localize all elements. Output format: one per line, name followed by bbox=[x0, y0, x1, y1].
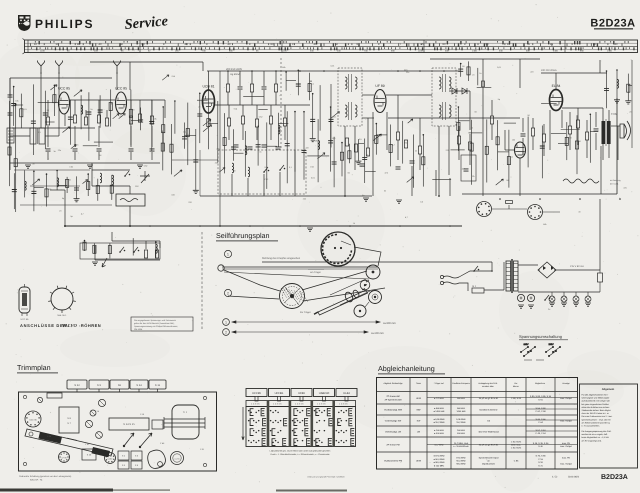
svg-text:400 kHz: 400 kHz bbox=[457, 432, 465, 435]
power transformer top view bbox=[172, 405, 199, 439]
coil fill bbox=[318, 141, 320, 150]
svg-text:460 kHz: 460 kHz bbox=[457, 397, 465, 400]
wire resistor drops left bbox=[47, 100, 49, 117]
resistor fill bbox=[20, 109, 23, 117]
svg-text:ca 600 mm: ca 600 mm bbox=[371, 332, 384, 335]
wire fill vertical bbox=[162, 107, 164, 151]
wire fill link bbox=[217, 126, 219, 128]
svg-text:Gedruckt und geprüft Fernempf: Gedruckt und geprüft Fernempf. schriftli… bbox=[307, 476, 344, 479]
junction fill bbox=[341, 142, 343, 144]
wire fill link bbox=[234, 152, 244, 154]
ground G4 bbox=[92, 262, 98, 265]
svg-text:±= 15 kHz/Rauh: ±= 15 kHz/Rauh bbox=[453, 445, 469, 448]
ground G5 bbox=[307, 228, 313, 231]
tube label boxes row bbox=[246, 389, 267, 397]
resistor R17 bbox=[269, 116, 272, 124]
wire fill vertical bbox=[69, 100, 71, 145]
wire fill vertical bbox=[390, 125, 392, 167]
capacitor C9 bbox=[262, 87, 267, 89]
svg-text:1k: 1k bbox=[366, 154, 368, 157]
svg-text:UCC85: UCC85 bbox=[252, 392, 261, 395]
resistor fill bbox=[108, 246, 111, 254]
wire fill vertical bbox=[76, 176, 78, 198]
wire left lower links bbox=[14, 169, 90, 171]
speaker cutout blob bbox=[148, 450, 166, 468]
resistor R24 bbox=[418, 146, 421, 154]
wire output tube verticals bbox=[555, 73, 557, 90]
switch S4 bbox=[264, 167, 268, 172]
box mains filter bbox=[116, 194, 145, 206]
svg-text:● 100 MHz: ● 100 MHz bbox=[434, 464, 444, 467]
wire fill vertical bbox=[330, 84, 332, 148]
capacitor C13 bbox=[276, 147, 281, 149]
wire fill vertical bbox=[162, 131, 164, 171]
svg-text:UCC 85: UCC 85 bbox=[58, 87, 70, 91]
wire fill vertical bbox=[233, 129, 235, 161]
wire fill vertical bbox=[477, 68, 479, 85]
svg-text:2n: 2n bbox=[457, 143, 459, 146]
wire fill link bbox=[45, 121, 54, 123]
wire fill vertical bbox=[110, 89, 112, 126]
IF transformer IFT1 bbox=[338, 68, 362, 126]
svg-text:5,95 MHz: 5,95 MHz bbox=[456, 418, 465, 421]
right pulley P1 bbox=[366, 265, 380, 279]
wire fill link bbox=[267, 145, 277, 147]
wire fill vertical bbox=[312, 94, 314, 139]
cord diagonals bbox=[224, 270, 280, 291]
resistor R27 bbox=[482, 81, 485, 87]
capacitor fill bbox=[296, 84, 301, 86]
wire bottom bus left bbox=[65, 225, 220, 227]
svg-text:S 25: S 25 bbox=[87, 454, 92, 457]
capacitor fill bbox=[86, 112, 91, 114]
resistor fill bbox=[308, 84, 311, 92]
svg-text:bei ganz eingezohrtem Drehk: bei ganz eingezohrtem Drehko bbox=[582, 403, 610, 406]
resistor fill bbox=[457, 122, 460, 130]
wire fill vertical bbox=[155, 242, 157, 258]
tube V4 UF89 pentode bbox=[374, 90, 386, 113]
wire fill vertical bbox=[217, 101, 219, 163]
capacitor fill bbox=[328, 141, 333, 143]
svg-text:S 52, S 54: S 52, S 54 bbox=[536, 429, 547, 432]
arrow pointer down bbox=[102, 258, 107, 267]
junction fill bbox=[87, 173, 89, 175]
svg-text:an Fassung: an Fassung bbox=[610, 179, 620, 182]
alignment table column lines bbox=[409, 378, 411, 470]
junction fill bbox=[15, 104, 17, 106]
svg-text:Fix Träger: Fix Träger bbox=[300, 311, 311, 314]
power transformer Tr N secondary bbox=[514, 261, 519, 291]
capacitor C11 bbox=[248, 147, 253, 149]
wire fill vertical bbox=[508, 130, 510, 188]
resistor R28 bbox=[490, 116, 493, 124]
svg-text:UCC 85: UCC 85 bbox=[29, 419, 37, 422]
coil fill bbox=[245, 146, 247, 155]
wire detector bbox=[449, 90, 470, 92]
variable capacitor CV1 bbox=[140, 171, 150, 183]
alignment table row lines bbox=[377, 391, 578, 393]
coil fill bbox=[278, 125, 280, 134]
resistor R13 bbox=[274, 84, 277, 92]
wire fill link bbox=[34, 186, 44, 188]
ground fill bbox=[355, 161, 361, 164]
tube socket TS3 bbox=[105, 453, 116, 464]
svg-text:Ug 60mA: Ug 60mA bbox=[230, 73, 240, 76]
junction fill bbox=[285, 71, 287, 73]
cord run horizontal bbox=[222, 266, 378, 268]
wire fill vertical bbox=[486, 119, 488, 182]
junction dots on buses bbox=[99, 225, 101, 227]
resistor R18 bbox=[283, 118, 286, 126]
svg-text:Oszillatorabgl. MW: Oszillatorabgl. MW bbox=[384, 409, 403, 412]
wire antenna drops bbox=[40, 72, 42, 128]
wire fill link bbox=[628, 85, 632, 87]
wire right section bottom bus bbox=[462, 193, 617, 195]
ratio detector box bbox=[461, 155, 476, 181]
svg-text:sprecherbuchsen – etwa 100: sprecherbuchsen – etwa 100 mV bbox=[582, 418, 612, 421]
svg-text:UCC 85: UCC 85 bbox=[115, 87, 127, 91]
junction fill bbox=[46, 173, 48, 175]
tube socket TS1 bbox=[25, 411, 41, 427]
svg-text:2n: 2n bbox=[59, 209, 61, 212]
junction fill bbox=[174, 100, 176, 102]
svg-text:S 56, S 58: S 56, S 58 bbox=[536, 407, 547, 410]
svg-text:S6: S6 bbox=[118, 384, 122, 387]
wire fill link bbox=[376, 134, 387, 136]
svg-text:B2D23A - Nr.: B2D23A - Nr. bbox=[30, 479, 43, 482]
wire IF links bbox=[362, 94, 374, 96]
wire am-fm divider dashed bbox=[280, 58, 282, 150]
coil fill bbox=[25, 181, 27, 190]
wire fill vertical bbox=[109, 243, 111, 258]
capacitor fill bbox=[540, 146, 545, 148]
capacitor fill bbox=[98, 110, 103, 112]
svg-text:1100: 1100 bbox=[40, 50, 45, 53]
wire converter lower rail bbox=[172, 159, 218, 161]
wire fill link bbox=[111, 103, 112, 105]
wire fill vertical bbox=[309, 73, 311, 101]
pin table body bbox=[246, 407, 356, 447]
heater lamps and loads bbox=[549, 296, 555, 302]
ground G3 bbox=[137, 165, 143, 168]
resistor fill bbox=[348, 151, 351, 159]
wire fill link bbox=[57, 184, 67, 186]
wire fill vertical bbox=[24, 170, 26, 197]
tube socket TS4 bbox=[171, 452, 184, 465]
capacitor C15 bbox=[396, 167, 401, 169]
svg-text:220V: 220V bbox=[548, 343, 554, 346]
resistor R5 bbox=[105, 118, 108, 126]
voltage selector diagram 110V bbox=[520, 343, 535, 357]
capacitor fill bbox=[604, 88, 609, 90]
coil fill bbox=[57, 178, 59, 187]
capacitor fill bbox=[458, 69, 463, 71]
wire fill vertical bbox=[616, 70, 618, 100]
switch S7 bbox=[545, 295, 549, 300]
capacitor C16 bbox=[410, 161, 415, 163]
ground G1 bbox=[25, 165, 31, 168]
wire fill vertical bbox=[171, 124, 173, 174]
svg-text:UF89: UF89 bbox=[298, 392, 305, 395]
svg-text:UCH81: UCH81 bbox=[275, 392, 284, 395]
junction fill bbox=[298, 70, 300, 72]
junction J1 bbox=[129, 225, 131, 227]
arrow pointer b bbox=[140, 433, 152, 447]
wire fill vertical bbox=[541, 126, 543, 179]
capacitor fill bbox=[285, 144, 290, 146]
svg-text:auft Abamtsrele. Der Zeiger: auft Abamtsrele. Der Zeiger soll bbox=[582, 400, 611, 403]
wire fill link bbox=[131, 119, 141, 121]
voltage selector diagram 220V bbox=[545, 343, 560, 357]
tuning drum bbox=[280, 284, 305, 309]
divider dashed vertical bbox=[201, 232, 203, 330]
ground G8 bbox=[528, 305, 534, 308]
resistor fill bbox=[45, 189, 48, 197]
svg-text:1 2 3 4 5: 1 2 3 4 5 bbox=[251, 403, 260, 406]
mains plug bbox=[443, 276, 459, 284]
wire fill vertical bbox=[576, 115, 578, 174]
wire fill vertical bbox=[87, 174, 89, 196]
svg-text:Ankopplung des Prüf-: Ankopplung des Prüf- bbox=[478, 382, 498, 385]
IF can block row above chassis bbox=[67, 380, 87, 389]
svg-text:22n: 22n bbox=[58, 149, 61, 152]
junction fill bbox=[312, 93, 314, 95]
svg-text:C 62, C 58: C 62, C 58 bbox=[535, 410, 546, 413]
svg-text:max. RV: max. RV bbox=[562, 456, 571, 459]
svg-text:● 5,95 MHz: ● 5,95 MHz bbox=[433, 418, 444, 421]
wire socket leads bbox=[492, 208, 527, 210]
svg-text:Oszillator-Frequenz: Oszillator-Frequenz bbox=[452, 382, 469, 385]
trimmer T2 bbox=[96, 432, 103, 439]
svg-text:22n: 22n bbox=[530, 70, 533, 73]
wire switchboard bbox=[95, 259, 160, 261]
wire cap drops bbox=[47, 126, 49, 147]
svg-text:● 98,0 MHz: ● 98,0 MHz bbox=[433, 461, 444, 464]
svg-text:Tr 1: Tr 1 bbox=[183, 411, 188, 414]
svg-text:47k: 47k bbox=[385, 172, 388, 175]
svg-text:2n: 2n bbox=[90, 108, 92, 111]
wire fill vertical bbox=[471, 120, 473, 185]
wire fill vertical bbox=[88, 92, 90, 141]
junction fill bbox=[303, 111, 305, 113]
capacitor C7 bbox=[150, 149, 155, 151]
svg-text:● 87,5 MHz: ● 87,5 MHz bbox=[433, 455, 444, 458]
svg-text:Lötpunktseite gez. Durch-Bli: Lötpunktseite gez. Durch-Blick nach unte… bbox=[270, 450, 331, 453]
wire long vertical divider bbox=[219, 71, 221, 226]
resistor fill bbox=[470, 143, 473, 151]
resistor fill bbox=[223, 138, 226, 146]
antenna A1 bbox=[38, 61, 45, 75]
svg-text:Abgleichanleitung: Abgleichanleitung bbox=[378, 364, 435, 373]
svg-text:chen der FM-ZF-Kreise ist: chen der FM-ZF-Kreise ist i. m. bbox=[582, 412, 610, 415]
junction fill bbox=[294, 111, 296, 113]
pin table header band bbox=[246, 401, 356, 407]
cord pulley links bbox=[330, 279, 366, 295]
wire fill vertical bbox=[286, 111, 288, 183]
resistor fill bbox=[109, 103, 112, 111]
tube V6 EABC80 triode bbox=[515, 142, 526, 158]
wire fill vertical bbox=[187, 103, 189, 166]
svg-text:1400: 1400 bbox=[607, 50, 613, 53]
capacitor fill bbox=[332, 162, 337, 164]
resistor R15 bbox=[241, 116, 244, 124]
capacitor C8 bbox=[238, 87, 243, 89]
svg-text:30 pF an g1 ECH 81: 30 pF an g1 ECH 81 bbox=[479, 444, 499, 447]
capacitor fill bbox=[193, 160, 198, 162]
svg-text:GM 6004: GM 6004 bbox=[134, 328, 143, 331]
svg-text:● 160 kHz: ● 160 kHz bbox=[434, 429, 444, 432]
svg-text:Punkt = 1. Gitterblechkontak: Punkt = 1. Gitterblechkontakt; o = Röhre… bbox=[270, 453, 330, 456]
svg-text:1: 1 bbox=[225, 320, 227, 324]
resistor R9 bbox=[144, 250, 147, 258]
svg-text:1 2 3 4 5: 1 2 3 4 5 bbox=[317, 403, 326, 406]
wire fill vertical bbox=[297, 70, 299, 95]
svg-text:B2D23A: B2D23A bbox=[601, 474, 628, 481]
coil osc L4 bbox=[232, 163, 234, 173]
resistor fill bbox=[186, 129, 189, 137]
pulley P3 bbox=[369, 291, 382, 304]
svg-text:22n: 22n bbox=[305, 146, 308, 149]
wire top small rail left bbox=[90, 61, 203, 63]
resistor fill bbox=[83, 242, 86, 250]
svg-text:C 88, S 84: C 88, S 84 bbox=[511, 397, 522, 400]
resistor fill bbox=[485, 146, 488, 154]
wire right edge vertical bbox=[616, 98, 618, 194]
knob shaft circles bbox=[29, 432, 33, 436]
svg-text:1 2 3 4 5: 1 2 3 4 5 bbox=[273, 403, 282, 406]
junction fill bbox=[54, 85, 56, 87]
capacitor fill bbox=[329, 119, 334, 121]
svg-text:UL 84: UL 84 bbox=[175, 457, 180, 460]
svg-text:senders ist so zu regeln,: senders ist so zu regeln, daß bbox=[582, 433, 608, 436]
ground G7 bbox=[518, 305, 524, 308]
svg-text:B2D23A: B2D23A bbox=[590, 18, 635, 30]
wire fill link bbox=[310, 80, 312, 82]
note box voltages bbox=[131, 317, 193, 331]
wire fill link bbox=[286, 80, 296, 82]
wire fill vertical bbox=[244, 131, 246, 177]
svg-text:15,2 MHz: 15,2 MHz bbox=[456, 421, 465, 424]
wire fill vertical bbox=[357, 139, 359, 161]
diode D1 bbox=[452, 88, 457, 94]
svg-text:ANSCHLÜSSE DER: ANSCHLÜSSE DER bbox=[20, 323, 67, 328]
wire fill vertical bbox=[319, 85, 321, 131]
wire fill vertical bbox=[15, 105, 17, 212]
svg-text:künstliche Antenne: künstliche Antenne bbox=[480, 409, 499, 412]
svg-text:UABC: UABC bbox=[107, 457, 113, 460]
capacitor fill bbox=[74, 188, 79, 190]
resistor R26 bbox=[468, 142, 471, 150]
svg-text:UCC 85: UCC 85 bbox=[21, 318, 30, 321]
svg-text:Oszillatorkreise FM: Oszillatorkreise FM bbox=[384, 460, 403, 463]
resistor fill bbox=[87, 182, 90, 190]
wire fill vertical bbox=[348, 144, 350, 164]
trimmer T4 bbox=[37, 397, 42, 402]
junction fill bbox=[13, 86, 15, 88]
resistor fill bbox=[340, 152, 343, 160]
switch mains S6 bbox=[474, 266, 478, 271]
ground fill bbox=[614, 100, 620, 103]
switch arrow texture bbox=[50, 85, 57, 90]
wire fill vertical bbox=[294, 112, 296, 172]
wire B+ up bbox=[599, 199, 601, 270]
capacitor fill bbox=[362, 157, 367, 159]
wire fill vertical bbox=[402, 121, 404, 164]
tube socket TS2 bbox=[59, 452, 70, 463]
svg-text:1400 kHz: 1400 kHz bbox=[456, 410, 465, 413]
wire fill vertical bbox=[422, 135, 424, 187]
wire fill link bbox=[590, 131, 598, 133]
capacitor C12 bbox=[262, 145, 267, 147]
capacitor fill bbox=[231, 147, 236, 149]
wire fill vertical bbox=[132, 238, 134, 255]
wire box feeds bbox=[129, 186, 131, 194]
wire rail left mid bbox=[10, 77, 112, 79]
junction fill bbox=[590, 114, 592, 116]
resistor fill bbox=[627, 84, 630, 92]
wire fill vertical bbox=[627, 74, 629, 101]
capacitor fill bbox=[43, 113, 48, 115]
wire fill vertical bbox=[468, 61, 470, 81]
left roller bbox=[218, 265, 224, 271]
svg-text:Allgemein: Allgemein bbox=[602, 388, 615, 391]
svg-text:am Träger: am Träger bbox=[310, 271, 321, 274]
svg-text:1k: 1k bbox=[259, 151, 261, 154]
svg-text:max. Output: max. Output bbox=[560, 463, 572, 466]
capacitor C6 bbox=[129, 149, 134, 151]
transformer input T-in bbox=[30, 128, 36, 144]
wire fill link bbox=[365, 171, 376, 173]
wire input links bbox=[10, 135, 30, 137]
fuse F2 bbox=[598, 273, 603, 282]
svg-text:Die Ausgangsspannung des Pr: Die Ausgangsspannung des Prüf- bbox=[582, 430, 612, 433]
resistor R21 bbox=[366, 148, 369, 156]
capacitor fill bbox=[256, 145, 261, 147]
svg-text:Seilführungsplan: Seilführungsplan bbox=[216, 231, 270, 240]
svg-text:Die angegebenen Spannungs- und: Die angegebenen Spannungs- und Stromwert… bbox=[134, 319, 177, 322]
trimmer T1 bbox=[85, 420, 92, 427]
switch S5 bbox=[280, 165, 284, 170]
junction fill bbox=[33, 171, 35, 173]
capacitor fill bbox=[197, 114, 202, 116]
screw S-b bbox=[203, 396, 206, 399]
wire fill vertical bbox=[84, 241, 86, 252]
small rect right of lamp bbox=[152, 420, 163, 429]
svg-text:3n: 3n bbox=[578, 210, 580, 213]
svg-text:am RV angezeigt wird.: am RV angezeigt wird. bbox=[582, 439, 603, 442]
scale lamp rect bbox=[109, 418, 149, 430]
bridge rectifier bbox=[538, 262, 556, 278]
svg-text:22n: 22n bbox=[406, 71, 409, 74]
svg-text:1M: 1M bbox=[404, 141, 407, 144]
wire fill vertical bbox=[303, 112, 305, 180]
ground fill bbox=[74, 199, 80, 202]
svg-text:UL84: UL84 bbox=[343, 392, 350, 395]
resistor R23 bbox=[404, 140, 407, 148]
svg-text:Vor-: Vor- bbox=[514, 382, 518, 385]
resistor R11 bbox=[226, 84, 229, 92]
svg-text:400 Ohm-Widerstand: 400 Ohm-Widerstand bbox=[478, 431, 499, 434]
capacitor C18 bbox=[521, 134, 526, 136]
svg-text:3n: 3n bbox=[32, 163, 34, 166]
wire fill vertical bbox=[199, 93, 201, 143]
svg-text:Symmetrischer Dipol: Symmetrischer Dipol bbox=[479, 456, 499, 459]
wire fill vertical bbox=[33, 171, 35, 211]
junction fill bbox=[460, 63, 462, 65]
wire osc cluster bbox=[92, 169, 130, 171]
svg-text:Vorkreisabgl. KW: Vorkreisabgl. KW bbox=[385, 420, 402, 423]
capacitor fill bbox=[302, 150, 307, 152]
